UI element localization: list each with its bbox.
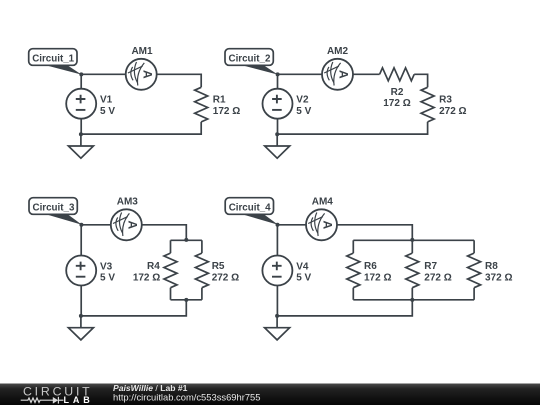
wire AM3 to parallel top bar [142, 225, 187, 241]
wire parallel top bar [171, 239, 202, 241]
svg-text:A: A [337, 70, 351, 79]
svg-text:V1: V1 [100, 95, 113, 106]
svg-text:272 Ω: 272 Ω [212, 272, 239, 283]
value label R3 272 Ohm [439, 94, 466, 117]
svg-text:272 Ω: 272 Ω [424, 272, 451, 283]
node top bar junction circuit 4 [410, 238, 414, 242]
wire node to V1 top [80, 74, 82, 88]
svg-text:Circuit_1: Circuit_1 [32, 53, 74, 64]
wire parallel bottom bar [353, 299, 474, 301]
node bottom junction circuit 1 [79, 132, 83, 136]
svg-text:R3: R3 [439, 94, 452, 105]
wire R6 top stub [352, 240, 354, 253]
ground circuit 2 [265, 134, 290, 158]
node D (Circuit_4 net junction) [276, 223, 280, 227]
wire R1 bottom to rail [81, 122, 201, 134]
wire AM4 to parallel top bar [337, 225, 412, 241]
wire V1 bottom to rail [80, 119, 82, 134]
svg-text:R4: R4 [147, 261, 160, 272]
wire R2 to R3 top corner [414, 74, 427, 87]
resistor R4 [164, 253, 177, 288]
resistor R5 [195, 253, 208, 288]
node label Circuit_4 [225, 198, 278, 225]
svg-text:AM2: AM2 [327, 46, 349, 57]
wire R7 bottom stub [411, 288, 413, 300]
svg-text:R1: R1 [213, 94, 226, 105]
wire R7 top stub [411, 240, 413, 253]
svg-text:5 V: 5 V [296, 273, 311, 284]
svg-text:V2: V2 [296, 95, 309, 106]
wire R3 bottom to rail [277, 122, 427, 134]
svg-text:A: A [140, 70, 154, 79]
wire node to AM4 [278, 224, 307, 226]
svg-text:R2: R2 [391, 87, 404, 98]
svg-text:AM4: AM4 [312, 196, 334, 207]
svg-text:5 V: 5 V [100, 106, 115, 117]
node label Circuit_3 [29, 198, 82, 225]
voltage source V2 [263, 89, 312, 119]
node B (Circuit_2 net junction) [276, 72, 280, 76]
svg-text:R7: R7 [424, 261, 437, 272]
resistor R7 [406, 253, 419, 288]
CircuitLab logo resistor-diode mark [21, 397, 64, 404]
svg-text:LAB: LAB [64, 395, 94, 405]
svg-text:R8: R8 [485, 261, 498, 272]
node A (Circuit_1 net junction) [79, 72, 83, 76]
resistor R3 [421, 87, 434, 122]
value label R6 172 Ohm [364, 261, 391, 283]
wire node to AM2 [278, 73, 322, 75]
svg-text:172 Ω: 172 Ω [133, 272, 160, 283]
voltage source V3 [66, 256, 115, 286]
wire R5 top stub [201, 240, 203, 253]
voltage source V4 [262, 256, 311, 286]
node C (Circuit_3 net junction) [79, 223, 83, 227]
node bottom junction circuit 3 [79, 314, 83, 318]
node label Circuit_1 [29, 49, 82, 75]
wire node to V3 top [80, 225, 82, 256]
resistor R2 [380, 68, 415, 81]
svg-text:AM3: AM3 [117, 196, 139, 207]
wire V3 bottom to rail [80, 286, 82, 316]
resistor R8 [468, 253, 481, 288]
wire node to V2 top [277, 74, 279, 88]
wire R4 bottom stub [170, 288, 172, 300]
svg-text:Circuit_2: Circuit_2 [229, 53, 271, 64]
svg-text:http://circuitlab.com/c553ss69: http://circuitlab.com/c553ss69hr755 [113, 391, 260, 402]
svg-text:AM1: AM1 [131, 46, 153, 57]
svg-text:Circuit_4: Circuit_4 [229, 202, 271, 213]
node bottom bar junction circuit 3 [184, 298, 188, 302]
value label R4 172 Ohm [133, 261, 160, 283]
svg-text:R6: R6 [364, 261, 377, 272]
wire bottom bar to rail [277, 300, 412, 316]
ammeter AM4 [306, 196, 337, 240]
value label R5 272 Ohm [212, 261, 239, 283]
wire R4 top stub [170, 240, 172, 253]
wire bottom bar to rail [81, 300, 186, 316]
svg-text:V3: V3 [100, 262, 113, 273]
wire R8 bottom stub [473, 288, 475, 300]
node bottom junction circuit 2 [275, 132, 279, 136]
node top bar junction circuit 3 [184, 238, 188, 242]
svg-text:272 Ω: 272 Ω [439, 106, 466, 117]
ground circuit 4 [265, 316, 290, 340]
ammeter AM3 [111, 196, 142, 240]
value label R8 372 Ohm [485, 261, 512, 283]
svg-text:5 V: 5 V [296, 106, 311, 117]
svg-text:Circuit_3: Circuit_3 [33, 202, 75, 213]
svg-text:A: A [126, 220, 140, 229]
node label Circuit_2 [225, 49, 278, 75]
wire node to AM1 [81, 73, 125, 75]
wire AM1 to R1 top corner [157, 74, 202, 87]
ground circuit 1 [68, 134, 93, 158]
svg-text:172 Ω: 172 Ω [364, 272, 391, 283]
ground circuit 3 [68, 316, 93, 340]
svg-text:V4: V4 [296, 262, 309, 273]
value label R1 172 Ohm [213, 94, 240, 117]
value label R2 172 Ohm [383, 87, 410, 109]
ammeter AM2 [322, 46, 353, 90]
wire node to AM3 [81, 224, 110, 226]
wire V4 bottom to rail [276, 286, 278, 316]
wire parallel bottom bar [171, 299, 202, 301]
value label R7 272 Ohm [424, 261, 451, 283]
svg-text:5 V: 5 V [100, 273, 115, 284]
wire R5 bottom stub [201, 288, 203, 300]
resistor R1 [195, 87, 208, 122]
wire node to V4 top [276, 225, 278, 256]
svg-text:172 Ω: 172 Ω [383, 98, 410, 109]
svg-text:172 Ω: 172 Ω [213, 106, 240, 117]
wire R8 top stub [473, 240, 475, 253]
wire parallel top bar [353, 239, 474, 241]
node bottom junction circuit 4 [275, 314, 279, 318]
ammeter AM1 [126, 46, 157, 90]
resistor R6 [347, 253, 360, 288]
svg-text:372 Ω: 372 Ω [485, 272, 512, 283]
voltage source V1 [66, 89, 115, 119]
wire V2 bottom to rail [277, 119, 279, 134]
svg-text:A: A [321, 220, 335, 229]
node bottom bar junction circuit 4 [410, 298, 414, 302]
wire R6 bottom stub [352, 288, 354, 300]
wire AM2 to R2 [353, 73, 380, 75]
svg-text:R5: R5 [212, 261, 225, 272]
